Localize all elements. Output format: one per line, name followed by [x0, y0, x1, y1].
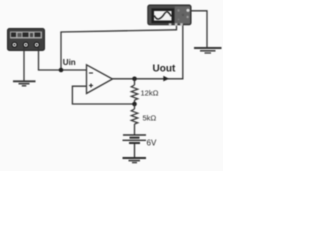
resistor R1 12k zigzag	[131, 79, 138, 104]
battery V1	[123, 135, 147, 158]
function generator terminal +	[12, 42, 17, 47]
svg-text:Uout: Uout	[153, 64, 176, 75]
wire op-amp output to node Uout	[112, 78, 183, 80]
oscilloscope XSC1 body	[148, 5, 191, 25]
wire op-amp + input feedback	[72, 86, 134, 104]
op-amp U1	[87, 65, 113, 94]
svg-text:6V: 6V	[147, 139, 157, 148]
wire stub scope terminal G	[176, 25, 178, 31]
resistor R2 5k zigzag	[131, 104, 138, 135]
function generator XFG1 body	[8, 29, 45, 51]
scope knobs	[177, 9, 179, 11]
scope bottom terminal G	[169, 23, 172, 26]
svg-text:Uin: Uin	[63, 58, 76, 67]
svg-text:12kΩ: 12kΩ	[141, 89, 159, 98]
scope bottom terminal A	[175, 23, 178, 26]
arrowhead on Uout wire	[163, 76, 169, 82]
scope bottom terminal B	[180, 23, 183, 26]
scope trace sine wave	[154, 12, 171, 19]
ground under battery	[123, 158, 147, 163]
wire scope channel B down to Uout	[182, 25, 184, 79]
node feedback junction dot	[132, 102, 137, 107]
function generator terminal COM	[23, 42, 28, 47]
ground under function generator	[13, 81, 36, 86]
node Uout junction dot	[132, 77, 137, 82]
wire top run to oscilloscope channel A	[60, 30, 176, 32]
svg-text:5kΩ: 5kΩ	[143, 114, 157, 123]
wire FG output to op-amp input (node Uin)	[38, 69, 87, 71]
scope right terminal upper	[186, 9, 189, 12]
scope right terminal lower	[186, 16, 188, 18]
ground right of scope	[194, 48, 222, 53]
wire FG COM to ground	[23, 48, 25, 82]
wire scope right terminal to ground	[191, 11, 207, 48]
node Uin junction dot	[59, 68, 64, 73]
function generator terminal -	[34, 42, 39, 47]
wire node Uin up to top run	[60, 32, 62, 70]
wire FG output down	[38, 48, 40, 71]
